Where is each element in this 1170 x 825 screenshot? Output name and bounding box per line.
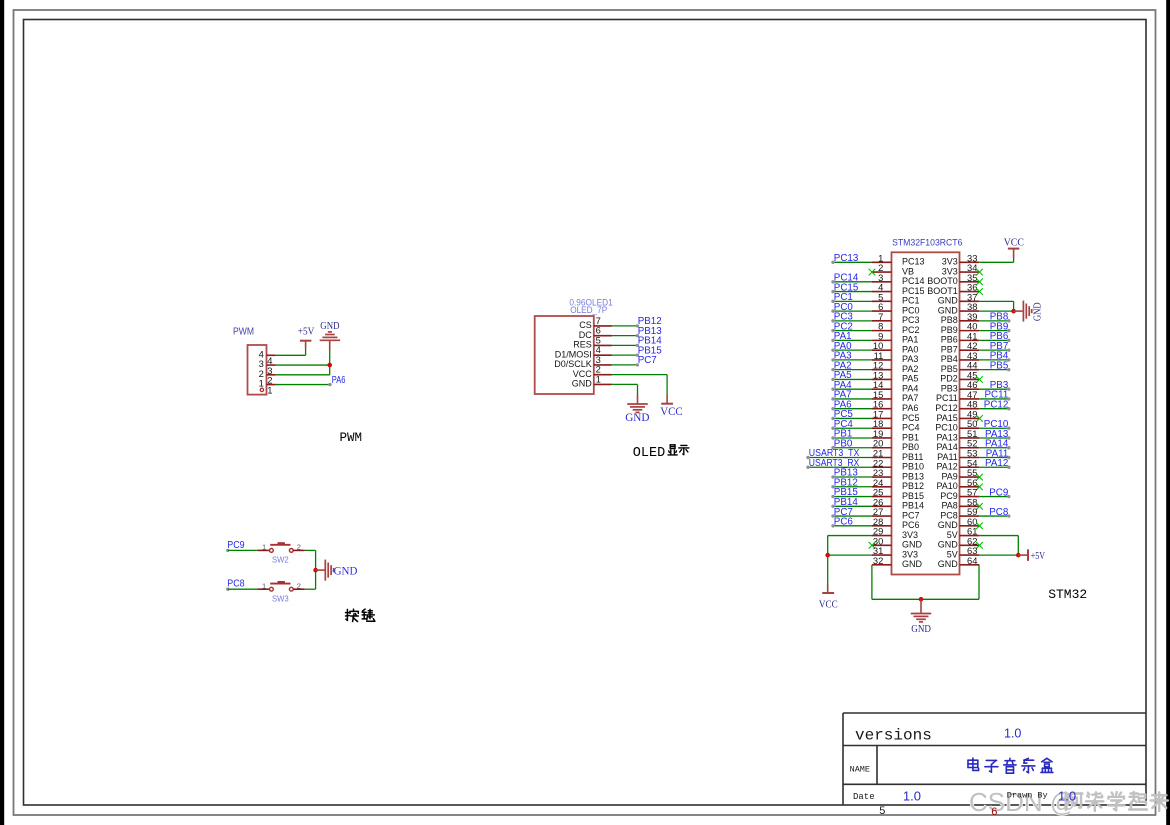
svg-text:PC13: PC13 bbox=[902, 257, 925, 267]
ground stub (bottom) bbox=[920, 599, 922, 613]
svg-text:PB13: PB13 bbox=[902, 471, 924, 481]
wire net PC14 (pin 3) bbox=[831, 273, 872, 284]
svg-text:3V3: 3V3 bbox=[942, 257, 958, 267]
OLED pin 6 stub bbox=[594, 335, 612, 337]
svg-text:PC11: PC11 bbox=[936, 393, 958, 403]
wire net PA2 (pin 12) bbox=[831, 360, 872, 371]
SW2 pin2 lead bbox=[293, 549, 305, 551]
ground stub (buttons) bbox=[316, 569, 325, 571]
U1 pin 16 (PA6) bbox=[872, 399, 918, 413]
switch SW2 contact 2 bbox=[289, 549, 293, 553]
svg-text:PC2: PC2 bbox=[902, 325, 920, 335]
PWM pin 2 stub bbox=[267, 374, 276, 376]
U1 pin 48 (PC12) bbox=[935, 399, 979, 413]
U1 pin 50 (PC10) bbox=[935, 418, 979, 432]
U1 pin 28 (PC6) bbox=[872, 516, 920, 530]
svg-text:OLED_7P: OLED_7P bbox=[570, 305, 607, 315]
OLED pin 4 stub bbox=[594, 354, 612, 356]
svg-text:PB10: PB10 bbox=[902, 462, 924, 472]
svg-text:PA6: PA6 bbox=[332, 375, 346, 386]
power symbol +5V bar (rotated) bbox=[1027, 549, 1029, 561]
wire net PA6 (pin 16) bbox=[831, 399, 872, 410]
switch SW2 contact 1 bbox=[270, 549, 274, 553]
svg-text:GND: GND bbox=[938, 520, 959, 530]
wire PC9 to SW2 pin1 bbox=[228, 549, 257, 551]
wire net PA5 (pin 13) bbox=[831, 370, 872, 381]
U1 pin 33 (3V3) bbox=[942, 252, 980, 266]
svg-text:+5V: +5V bbox=[298, 327, 315, 338]
switch SW3 contact 2 bbox=[289, 587, 293, 591]
wire net PC4 (pin 18) bbox=[831, 419, 872, 430]
right black screen edge bbox=[1166, 0, 1170, 825]
svg-text:PC13: PC13 bbox=[834, 253, 859, 264]
wire PWM pin2 bbox=[276, 374, 330, 376]
wire net PA0 (pin 10) bbox=[831, 341, 872, 352]
svg-text:SW2: SW2 bbox=[272, 555, 289, 565]
U1 pin 61 (5V) bbox=[947, 526, 980, 540]
svg-text:6: 6 bbox=[991, 807, 998, 819]
svg-text:STM32F103RCT6: STM32F103RCT6 bbox=[892, 238, 962, 249]
wire net PA14 (pin 52) bbox=[979, 439, 1010, 450]
svg-text:PB5: PB5 bbox=[941, 364, 958, 374]
svg-text:PB7: PB7 bbox=[941, 344, 958, 354]
wire net PB15 (pin 25) bbox=[831, 487, 872, 498]
U1 pin 13 (PA5) bbox=[872, 369, 918, 383]
svg-text:5V: 5V bbox=[947, 549, 958, 559]
svg-text:PC9: PC9 bbox=[940, 491, 958, 501]
switch SW2 actuator bar bbox=[270, 544, 290, 546]
svg-text:D0/SCLK: D0/SCLK bbox=[554, 359, 592, 369]
svg-text:CS: CS bbox=[579, 320, 592, 330]
svg-text:1: 1 bbox=[262, 543, 266, 552]
svg-text:PB0: PB0 bbox=[902, 442, 919, 452]
svg-text:PC6: PC6 bbox=[834, 517, 854, 528]
U1 pin 38 (GND) bbox=[938, 301, 980, 315]
ground stub (OLED) bbox=[637, 395, 639, 404]
ground symbol GND (inverted bars) bbox=[320, 332, 341, 340]
wire OLED D0/SCLK to PC7 bbox=[612, 364, 637, 366]
U1 pin 23 (PB13) bbox=[872, 467, 924, 481]
U1 pin 49 (PA15) bbox=[936, 408, 979, 422]
power symbol VCC bar (bottom left) bbox=[822, 592, 834, 594]
node PB14 dot bbox=[636, 344, 639, 347]
svg-text:PA5: PA5 bbox=[902, 374, 918, 384]
svg-text:PB8: PB8 bbox=[941, 315, 958, 325]
svg-text:GND: GND bbox=[902, 540, 923, 550]
svg-text:PA10: PA10 bbox=[936, 481, 957, 491]
wire net PC7 (pin 27) bbox=[831, 507, 872, 518]
svg-text:PB9: PB9 bbox=[941, 325, 958, 335]
svg-text:PA8: PA8 bbox=[941, 501, 957, 511]
svg-text:PA14: PA14 bbox=[936, 442, 957, 452]
svg-text:PA15: PA15 bbox=[936, 413, 957, 423]
U1 pin 52 (PA14) bbox=[936, 438, 979, 452]
svg-text:PB5: PB5 bbox=[990, 360, 1009, 371]
svg-text:STM32: STM32 bbox=[1048, 587, 1087, 602]
SW3 pin1 lead bbox=[257, 588, 269, 590]
U1 pin 54 (PA12) bbox=[936, 457, 979, 471]
svg-text:NAME: NAME bbox=[850, 765, 870, 775]
U1 pin 14 (PA4) bbox=[872, 379, 918, 393]
svg-text:+5V: +5V bbox=[1031, 551, 1046, 562]
svg-text:PA9: PA9 bbox=[941, 471, 957, 481]
svg-text:VB: VB bbox=[902, 266, 914, 276]
OLED pin 5 stub bbox=[594, 344, 612, 346]
junction GND bottom bbox=[919, 597, 924, 602]
U1 pin 58 (PA8) bbox=[941, 496, 979, 510]
svg-text:PC10: PC10 bbox=[935, 423, 958, 433]
U1 pin 42 (PB7) bbox=[941, 340, 980, 354]
svg-text:PC12: PC12 bbox=[984, 400, 1009, 411]
U1 pin 55 (PA9) bbox=[941, 467, 979, 481]
svg-text:PC3: PC3 bbox=[902, 315, 920, 325]
wire OLED CS to PB12 bbox=[612, 325, 637, 327]
wire net PB3 (pin 46) bbox=[979, 380, 1010, 391]
left black screen edge bbox=[0, 0, 4, 825]
svg-text:PA11: PA11 bbox=[937, 452, 958, 462]
junction pin3/GND bbox=[327, 363, 332, 368]
svg-text:GND: GND bbox=[902, 559, 923, 569]
U1 pin 62 (GND) bbox=[938, 535, 980, 549]
U1 pin 59 (PC8) bbox=[940, 506, 979, 520]
OLED pin 2 stub bbox=[594, 374, 612, 376]
U1 pin 32 (GND) bbox=[872, 555, 923, 569]
svg-text:GND: GND bbox=[320, 321, 340, 332]
wire net PC0 (pin 6) bbox=[831, 302, 872, 313]
wire net PC10 (pin 50) bbox=[979, 419, 1010, 430]
svg-text:GND: GND bbox=[334, 564, 358, 578]
svg-text:PB1: PB1 bbox=[902, 432, 919, 442]
node PB13 dot bbox=[636, 334, 639, 337]
svg-text:versions: versions bbox=[855, 726, 932, 744]
svg-text:Drawn By: Drawn By bbox=[1007, 791, 1048, 801]
svg-text:64: 64 bbox=[967, 555, 977, 566]
U1 pin 64 (GND) bbox=[938, 555, 980, 569]
no-connect X pin 34 bbox=[976, 269, 983, 276]
wire net PC8 (pin 59) bbox=[979, 507, 1010, 518]
wire net PC3 (pin 7) bbox=[831, 312, 872, 323]
svg-text:Date: Date bbox=[853, 792, 875, 802]
U1 pin 22 (PB10) bbox=[872, 457, 924, 471]
U1 pin 46 (PB3) bbox=[941, 379, 980, 393]
U1 pin 6 (PC0) bbox=[872, 301, 920, 315]
junction button GND bbox=[313, 568, 318, 573]
power VCC stub (bottom left) bbox=[827, 585, 829, 593]
U1 pin 18 (PC4) bbox=[872, 418, 920, 432]
power VCC stub (OLED) bbox=[666, 395, 668, 403]
no-connect X pin 30 bbox=[869, 542, 876, 549]
PWM pin 3 stub bbox=[267, 364, 276, 366]
wire net PB7 (pin 42) bbox=[979, 341, 1010, 352]
node PB12 dot bbox=[636, 324, 639, 327]
svg-text:PC4: PC4 bbox=[902, 423, 920, 433]
svg-text:1.0: 1.0 bbox=[1004, 726, 1021, 740]
no-connect X pin 56 bbox=[976, 483, 983, 490]
U1 pin 35 (BOOT0) bbox=[927, 272, 979, 286]
U1 pin 1 (PC13) bbox=[872, 252, 925, 266]
svg-text:PD2: PD2 bbox=[940, 374, 958, 384]
U1 pin 19 (PB1) bbox=[872, 428, 919, 442]
svg-text:PA12: PA12 bbox=[936, 462, 957, 472]
U1 pin 15 (PA7) bbox=[872, 389, 918, 403]
U1 pin 2 (VB) bbox=[872, 262, 914, 276]
svg-text:GND: GND bbox=[938, 296, 959, 306]
U1 pin 36 (BOOT1) bbox=[927, 282, 979, 296]
comment text button bbox=[346, 609, 359, 621]
SW2 pin1 lead bbox=[257, 549, 269, 551]
wire GND vertical bbox=[329, 350, 331, 375]
U1 pin 63 (5V) bbox=[947, 545, 980, 559]
wire pin64 GND down bbox=[978, 565, 980, 599]
svg-text:PA1: PA1 bbox=[902, 335, 918, 345]
wire net PB12 (pin 24) bbox=[831, 477, 872, 488]
svg-text:PC6: PC6 bbox=[902, 520, 920, 530]
OLED pin 7 stub bbox=[594, 325, 612, 327]
svg-text:PC15: PC15 bbox=[902, 286, 925, 296]
PWM pin 4 stub bbox=[267, 354, 276, 356]
svg-text:PA0: PA0 bbox=[902, 344, 918, 354]
wire net PA4 (pin 14) bbox=[831, 380, 872, 391]
svg-text:VCC: VCC bbox=[573, 369, 593, 379]
wire SW3 pin2 to GND rail bbox=[305, 588, 316, 590]
U1 pin 47 (PC11) bbox=[936, 389, 979, 403]
wire button GND rail vertical bbox=[315, 550, 317, 589]
svg-text:PC5: PC5 bbox=[902, 413, 920, 423]
svg-text:3V3: 3V3 bbox=[942, 266, 958, 276]
wire net PA11 (pin 53) bbox=[979, 448, 1010, 459]
U1 pin 25 (PB15) bbox=[872, 487, 924, 501]
U1 pin 56 (PA10) bbox=[936, 477, 979, 491]
U1 pin 5 (PC1) bbox=[872, 291, 920, 305]
svg-text:PA2: PA2 bbox=[902, 364, 918, 374]
node PC8 dot bbox=[226, 588, 229, 591]
U1 pin 53 (PA11) bbox=[937, 448, 979, 462]
U1 pin 4 (PC15) bbox=[872, 282, 925, 296]
U1 pin 12 (PA2) bbox=[872, 360, 918, 374]
U1 pin 8 (PC2) bbox=[872, 321, 920, 335]
svg-text:GND: GND bbox=[938, 540, 959, 550]
wire net USART3_RX (pin 22) bbox=[806, 458, 872, 469]
wire OLED VCC pin bbox=[612, 374, 667, 376]
wire PWM pin1 to PA6 bbox=[276, 384, 330, 386]
wire PC8 to SW3 pin1 bbox=[228, 588, 257, 590]
svg-text:PB4: PB4 bbox=[941, 354, 958, 364]
wire net PC15 (pin 4) bbox=[831, 282, 872, 293]
wire OLED GND pin bbox=[612, 383, 638, 385]
svg-text:PA3: PA3 bbox=[902, 354, 918, 364]
OLED pin 3 stub bbox=[594, 364, 612, 366]
svg-text:OLED: OLED bbox=[633, 446, 665, 461]
svg-text:PWM: PWM bbox=[233, 326, 254, 338]
wire net PB0 (pin 20) bbox=[831, 438, 872, 449]
power +5V stub bbox=[305, 341, 307, 348]
switch SW2 actuator bump bbox=[278, 542, 285, 545]
svg-text:PC8: PC8 bbox=[989, 507, 1009, 518]
power symbol VCC bar (pin33) bbox=[1008, 248, 1020, 250]
svg-text:PB6: PB6 bbox=[941, 335, 958, 345]
U1 pin 17 (PC5) bbox=[872, 408, 920, 422]
svg-text:PC14: PC14 bbox=[902, 276, 925, 286]
svg-text:PWM: PWM bbox=[340, 431, 363, 445]
svg-text:VCC: VCC bbox=[819, 599, 838, 610]
U1 pin 29 (3V3) bbox=[872, 526, 918, 540]
node PB15 dot bbox=[636, 353, 639, 356]
wire net PA1 (pin 9) bbox=[831, 331, 872, 342]
PWM pin 1 stub bbox=[267, 384, 276, 386]
svg-text:PA6: PA6 bbox=[902, 403, 918, 413]
switch SW3 actuator bump bbox=[278, 581, 285, 584]
wire pin37 GND bbox=[979, 300, 1013, 302]
U1 pin 3 (PC14) bbox=[872, 272, 925, 286]
svg-text:PA4: PA4 bbox=[902, 383, 918, 393]
node PC7 dot bbox=[636, 363, 639, 366]
U1 pin 51 (PA13) bbox=[936, 428, 979, 442]
switch SW3 contact 1 bbox=[270, 587, 274, 591]
wire net PB8 (pin 39) bbox=[979, 312, 1010, 323]
junction VCC pins29/31 bbox=[825, 553, 830, 558]
wire net PC9 (pin 57) bbox=[979, 487, 1010, 498]
svg-text:VCC: VCC bbox=[660, 406, 683, 418]
OLED pin 1 stub bbox=[594, 383, 612, 385]
U1 pin 7 (PC3) bbox=[872, 311, 920, 325]
svg-text:DC: DC bbox=[579, 330, 592, 340]
wire net PC13 (pin 1) bbox=[831, 253, 872, 264]
U1 pin 37 (GND) bbox=[938, 291, 980, 305]
svg-text:GND: GND bbox=[938, 559, 959, 569]
svg-text:PC12: PC12 bbox=[935, 403, 958, 413]
wire GND bottom rail bbox=[872, 598, 979, 600]
U1 pin 20 (PB0) bbox=[872, 438, 919, 452]
no-connect X pin 35 bbox=[976, 279, 983, 286]
junction +5V pins61/63 bbox=[1016, 553, 1021, 558]
ground symbol GND rotated (pins37/38) bbox=[1023, 301, 1031, 322]
svg-text:1: 1 bbox=[262, 581, 266, 590]
wire net PB6 (pin 41) bbox=[979, 331, 1010, 342]
wire net PA3 (pin 11) bbox=[831, 351, 872, 362]
svg-text:GND: GND bbox=[938, 305, 959, 315]
U1 pin 31 (3V3) bbox=[872, 545, 918, 559]
svg-text:3V3: 3V3 bbox=[902, 530, 918, 540]
wire PWM pin3 to GND junction bbox=[276, 364, 330, 366]
svg-text:PC8: PC8 bbox=[227, 579, 245, 590]
U1 pin 43 (PB4) bbox=[941, 350, 980, 364]
watermark handle (CJK) bbox=[1066, 793, 1083, 811]
no-connect X pin 45 bbox=[976, 376, 983, 383]
title name electronic music box bbox=[968, 758, 979, 770]
wire net PC2 (pin 8) bbox=[831, 321, 872, 332]
svg-text:PC9: PC9 bbox=[227, 540, 244, 551]
svg-text:PB14: PB14 bbox=[902, 501, 924, 511]
no-connect X pin 60 bbox=[976, 523, 983, 530]
power symbol +5V (bar) bbox=[300, 340, 312, 342]
U1 pin 24 (PB12) bbox=[872, 477, 924, 491]
junction GND pins37/38 bbox=[1011, 309, 1016, 314]
svg-text:GND: GND bbox=[572, 379, 593, 389]
no-connect X pin 58 bbox=[976, 503, 983, 510]
svg-text:GND: GND bbox=[625, 412, 649, 424]
wire pin31 3V3 bbox=[828, 554, 872, 556]
svg-text:1: 1 bbox=[259, 378, 264, 389]
wire net PA12 (pin 54) bbox=[979, 458, 1010, 469]
wire pin32 GND down bbox=[871, 565, 873, 599]
wire pin63 5V bbox=[979, 554, 1018, 556]
wire VCC rail vertical bbox=[827, 536, 829, 585]
node PC9 dot bbox=[226, 549, 229, 552]
svg-text:1.0: 1.0 bbox=[1058, 788, 1076, 803]
U1 pin 9 (PA1) bbox=[872, 330, 918, 344]
svg-text:PC7: PC7 bbox=[638, 355, 657, 366]
svg-text:PA13: PA13 bbox=[936, 432, 957, 442]
switch SW3 actuator bar bbox=[270, 583, 290, 585]
wire OLED D1/MOSI to PB15 bbox=[612, 354, 637, 356]
wire pin33 to VCC bbox=[979, 261, 1013, 263]
U1 pin 57 (PC9) bbox=[940, 487, 979, 501]
svg-text:GND: GND bbox=[911, 624, 931, 635]
U1 pin 11 (PA3) bbox=[872, 350, 918, 364]
wire net PB1 (pin 19) bbox=[831, 429, 872, 440]
ground stub (pins37/38) bbox=[1014, 310, 1023, 312]
svg-text:PC0: PC0 bbox=[902, 305, 920, 315]
svg-text:BOOT1: BOOT1 bbox=[927, 286, 958, 296]
svg-text:PA7: PA7 bbox=[902, 393, 918, 403]
op-amp U1 STM32 body bbox=[892, 252, 960, 574]
U1 pin 21 (PB11) bbox=[872, 448, 923, 462]
svg-text:PC8: PC8 bbox=[940, 510, 958, 520]
wire SW2 pin2 to GND rail bbox=[305, 549, 316, 551]
connector OLED body bbox=[535, 316, 594, 394]
wire OLED DC to PB13 bbox=[612, 335, 637, 337]
svg-text:PB15: PB15 bbox=[902, 491, 924, 501]
title block frame bbox=[843, 713, 1146, 805]
U1 pin 41 (PB6) bbox=[941, 330, 980, 344]
power +5V stub (pin63) bbox=[1018, 554, 1027, 556]
U1 pin 10 (PA0) bbox=[872, 340, 918, 354]
svg-text:PB12: PB12 bbox=[902, 481, 924, 491]
U1 pin 60 (GND) bbox=[938, 516, 980, 530]
svg-text:SW3: SW3 bbox=[272, 594, 289, 604]
U1 pin 40 (PB9) bbox=[941, 321, 980, 335]
wire pin29 3V3 bbox=[828, 535, 872, 537]
wire net PC12 (pin 48) bbox=[979, 400, 1010, 411]
wire net PC11 (pin 47) bbox=[979, 390, 1010, 401]
connector PWM body bbox=[248, 345, 267, 395]
wire net PB13 (pin 23) bbox=[831, 468, 872, 479]
no-connect X pin 2 bbox=[869, 269, 876, 276]
wire net PC1 (pin 5) bbox=[831, 292, 872, 303]
U1 pin 44 (PB5) bbox=[941, 360, 980, 374]
no-connect X pin 55 bbox=[976, 474, 983, 481]
wire net PB9 (pin 40) bbox=[979, 321, 1010, 332]
wire net PC5 (pin 17) bbox=[831, 409, 872, 420]
svg-text:PC7: PC7 bbox=[902, 510, 920, 520]
ground symbol GND (buttons, rotated) bbox=[325, 560, 333, 581]
U1 pin 30 (GND) bbox=[872, 535, 923, 549]
wire net PC6 (pin 28) bbox=[831, 517, 872, 528]
svg-text:BOOT0: BOOT0 bbox=[927, 276, 958, 286]
node PA6 dot bbox=[328, 383, 331, 386]
wire net PB4 (pin 43) bbox=[979, 351, 1010, 362]
wire OLED RES to PB14 bbox=[612, 344, 637, 346]
power symbol VCC bar (OLED) bbox=[661, 403, 673, 405]
U1 pin 26 (PB14) bbox=[872, 496, 924, 510]
svg-text:RES: RES bbox=[573, 340, 592, 350]
U1 pin 34 (3V3) bbox=[942, 262, 980, 276]
svg-text:3V3: 3V3 bbox=[902, 549, 918, 559]
wire net PB14 (pin 26) bbox=[831, 497, 872, 508]
SW3 pin2 lead bbox=[293, 588, 305, 590]
svg-text:PB11: PB11 bbox=[902, 452, 923, 462]
svg-text:D1/MOSI: D1/MOSI bbox=[555, 349, 592, 359]
